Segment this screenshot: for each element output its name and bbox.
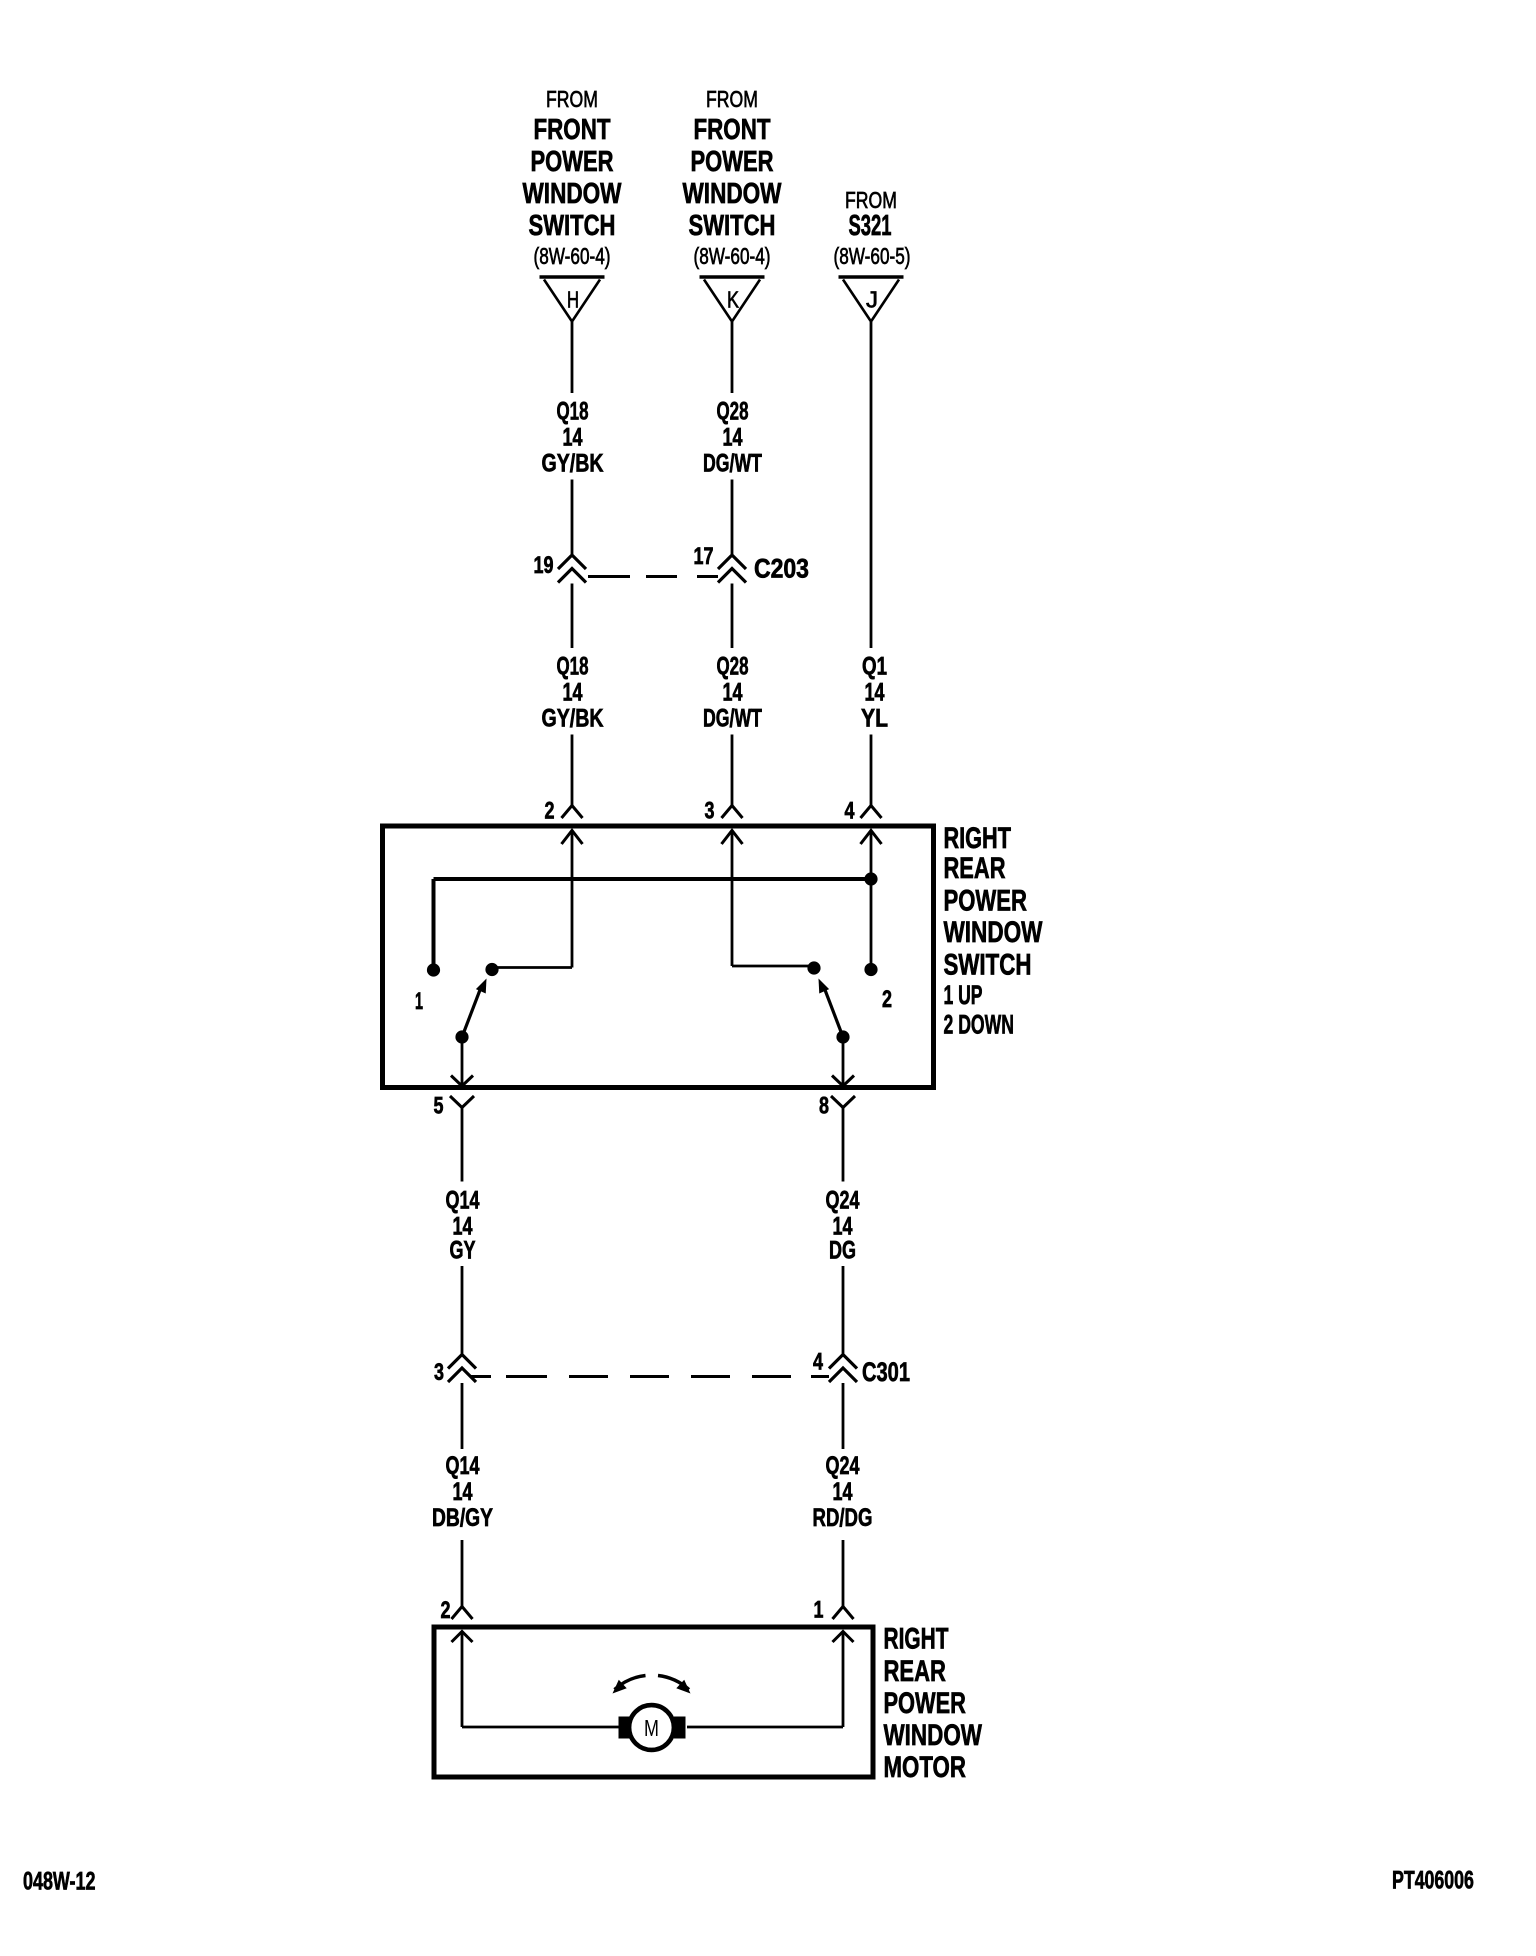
node label col J: FROM S321	[845, 188, 897, 214]
wire H down	[571, 322, 574, 393]
svg-text:K: K	[727, 287, 739, 313]
off-page connector triangle K	[700, 275, 765, 278]
wire arm left to pin 5	[461, 1037, 464, 1086]
wire label Q14 14 DB/GY	[446, 1451, 480, 1480]
svg-text:WINDOW: WINDOW	[683, 179, 783, 210]
svg-text:Q24: Q24	[826, 1451, 860, 1480]
connector C203 pin 17 chevron	[718, 555, 746, 569]
connector name C203	[754, 555, 809, 584]
wire label Q28 14 DG/WT (upper)	[717, 397, 749, 425]
svg-text:8: 8	[819, 1093, 829, 1119]
svg-text:REAR: REAR	[884, 1654, 947, 1688]
wire pin2 inside	[571, 831, 574, 968]
wire Q14 to motor pin 2	[461, 1540, 464, 1607]
motor M1 symbol	[619, 1717, 631, 1739]
right rear power window switch box	[383, 826, 934, 1088]
wire Q18 to switch pin 2	[571, 735, 574, 806]
wire label Q18 14 GY/BK (lower)	[557, 652, 589, 680]
svg-text:17: 17	[694, 544, 714, 570]
svg-text:WINDOW: WINDOW	[944, 915, 1043, 949]
drawing number PT406006	[1392, 1865, 1474, 1894]
connector C301 pin 4 chevron	[829, 1355, 857, 1369]
svg-text:POWER: POWER	[944, 883, 1028, 917]
wire label Q24 14 RD/DG	[826, 1451, 860, 1480]
wire Q18 to C203	[571, 480, 574, 555]
wire Q24 to C301	[842, 1266, 845, 1354]
switch name text	[944, 823, 1012, 855]
svg-text:14: 14	[563, 423, 583, 452]
wire pin8 down	[842, 1108, 845, 1182]
switch arm left (pin5 wiper)	[462, 986, 482, 1037]
svg-text:4: 4	[845, 798, 855, 824]
svg-text:1 UP: 1 UP	[944, 979, 983, 1010]
contact dot upper-right	[807, 961, 820, 974]
svg-text:14: 14	[453, 1477, 473, 1506]
svg-text:REAR: REAR	[944, 851, 1006, 885]
contact dot 2 (down)	[864, 963, 877, 976]
wire label Q18 14 GY/BK (upper)	[557, 397, 589, 425]
wire label Q1 14 YL	[862, 652, 887, 680]
node label col K: FROM FRONT POWER WINDOW SWITCH	[706, 87, 758, 113]
wire label Q28 14 DG/WT (lower)	[717, 652, 749, 680]
contact label 1	[415, 988, 423, 1015]
svg-text:FROM: FROM	[706, 87, 758, 113]
svg-text:1: 1	[415, 988, 423, 1015]
switch pin 2	[562, 806, 583, 819]
wire label Q14 14 GY	[446, 1186, 480, 1215]
svg-text:14: 14	[833, 1477, 853, 1506]
svg-text:POWER: POWER	[531, 146, 614, 177]
pin number 3	[434, 1360, 444, 1386]
svg-text:Q18: Q18	[557, 397, 589, 425]
switch position legend	[944, 979, 983, 1010]
svg-text:YL: YL	[861, 704, 888, 732]
svg-text:Q18: Q18	[557, 652, 589, 680]
svg-text:14: 14	[723, 678, 743, 707]
wire pin4 inside	[870, 831, 873, 970]
svg-text:048W-12: 048W-12	[23, 1867, 95, 1896]
svg-text:2: 2	[882, 987, 892, 1013]
switch pin 8	[832, 1076, 854, 1087]
wire K down	[731, 322, 734, 393]
svg-text:4: 4	[813, 1349, 823, 1375]
wire below C301 left	[461, 1383, 464, 1449]
switch pin 3	[722, 806, 743, 819]
svg-text:J: J	[866, 287, 878, 314]
wire arm right to pin 8	[842, 1037, 845, 1086]
svg-text:Q28: Q28	[717, 397, 749, 425]
switch pin 5	[451, 1076, 473, 1087]
svg-text:3: 3	[434, 1360, 444, 1386]
arm pivot dot right	[836, 1030, 849, 1043]
off-page connector triangle H	[540, 275, 605, 278]
wire pin5 down	[461, 1108, 464, 1182]
svg-text:WINDOW: WINDOW	[884, 1718, 983, 1752]
svg-text:C301: C301	[862, 1357, 910, 1386]
right rear power window motor box	[434, 1627, 873, 1777]
svg-text:Q14: Q14	[446, 1186, 480, 1215]
wire below C301 right	[842, 1383, 845, 1449]
arm pivot dot left	[455, 1030, 468, 1043]
svg-text:14: 14	[723, 423, 743, 452]
motor pin 2	[452, 1607, 473, 1620]
wire Q1 to switch pin 4	[870, 735, 873, 806]
svg-text:2: 2	[441, 1598, 451, 1624]
svg-text:FRONT: FRONT	[694, 115, 771, 146]
wire Q14 to C301	[461, 1266, 464, 1354]
connector name C301	[862, 1357, 910, 1386]
svg-text:GY/BK: GY/BK	[542, 704, 604, 732]
svg-text:FROM: FROM	[546, 87, 598, 113]
svg-text:1: 1	[814, 1597, 824, 1623]
svg-text:2: 2	[545, 798, 555, 824]
svg-text:Q28: Q28	[717, 652, 749, 680]
node label col H: FROM FRONT POWER WINDOW SWITCH	[546, 87, 598, 113]
wire below C203 left	[571, 584, 574, 649]
wire Q28 to switch pin 3	[731, 735, 734, 806]
connector C301 dashed link	[470, 1375, 491, 1378]
wire to contact	[492, 966, 572, 969]
pin number 19	[534, 553, 554, 579]
svg-text:POWER: POWER	[691, 146, 774, 177]
svg-text:(8W-60-4): (8W-60-4)	[534, 243, 611, 269]
svg-text:Q14: Q14	[446, 1451, 480, 1480]
svg-text:DG/WT: DG/WT	[703, 448, 762, 477]
svg-text:SWITCH: SWITCH	[689, 210, 776, 241]
svg-text:DG/WT: DG/WT	[703, 703, 762, 732]
connector C301 pin 3 chevron	[448, 1355, 476, 1369]
svg-text:RIGHT: RIGHT	[884, 1623, 949, 1655]
wire to motor right	[687, 1726, 843, 1729]
svg-text:FRONT: FRONT	[534, 115, 611, 146]
motor name text	[884, 1623, 949, 1655]
crossbar wire	[434, 877, 872, 881]
switch pin 4	[861, 806, 882, 819]
wire pin3 inside	[731, 831, 734, 967]
junction dot pin4/crossbar	[864, 872, 877, 885]
svg-text:19: 19	[534, 553, 554, 579]
svg-text:M: M	[644, 1716, 659, 1742]
svg-text:C203: C203	[754, 555, 809, 584]
connector C203 pin 19 chevron	[558, 555, 586, 569]
wire label Q24 14 DG	[826, 1186, 860, 1215]
svg-text:Q24: Q24	[826, 1186, 860, 1215]
wire below C203 right	[731, 584, 734, 649]
wire Q28 to C203	[731, 480, 734, 555]
svg-text:SWITCH: SWITCH	[944, 948, 1032, 982]
sheet number 048W-12	[23, 1867, 95, 1896]
switch arm right (pin8 wiper)	[824, 986, 844, 1037]
wire J down	[870, 322, 873, 648]
svg-text:RD/DG: RD/DG	[813, 1503, 873, 1531]
svg-text:GY: GY	[450, 1236, 476, 1265]
off-page connector triangle J	[839, 275, 904, 278]
svg-text:MOTOR: MOTOR	[884, 1750, 967, 1784]
wire to motor left	[462, 1726, 619, 1729]
svg-text:H: H	[567, 288, 579, 313]
svg-text:SWITCH: SWITCH	[529, 210, 616, 241]
wire motor pin2 inside	[461, 1632, 464, 1728]
svg-text:(8W-60-4): (8W-60-4)	[694, 243, 771, 269]
contact dot upper-left	[485, 963, 498, 976]
contact dot 1 (up)	[427, 963, 440, 976]
svg-text:DG: DG	[829, 1236, 856, 1265]
wire Q24 to motor pin 1	[842, 1540, 845, 1607]
svg-text:14: 14	[865, 678, 885, 707]
svg-text:GY/BK: GY/BK	[542, 449, 604, 477]
svg-text:POWER: POWER	[884, 1688, 967, 1720]
svg-text:WINDOW: WINDOW	[523, 179, 623, 210]
svg-text:PT406006: PT406006	[1392, 1865, 1474, 1894]
svg-text:2 DOWN: 2 DOWN	[944, 1009, 1014, 1040]
pin number 17	[694, 544, 714, 570]
svg-text:S321: S321	[849, 210, 892, 242]
wire motor pin1 inside	[842, 1632, 845, 1728]
left drop wire	[432, 879, 436, 964]
svg-text:3: 3	[705, 798, 715, 824]
svg-text:14: 14	[563, 678, 583, 707]
pin number 4	[813, 1349, 823, 1375]
wire to contact	[732, 965, 814, 968]
motor pin 1	[833, 1607, 854, 1620]
svg-text:Q1: Q1	[862, 652, 887, 680]
connector C203 dashed link	[588, 575, 630, 578]
svg-text:(8W-60-5): (8W-60-5)	[834, 243, 911, 269]
contact label 2	[882, 987, 892, 1013]
rotation arrows	[615, 1676, 646, 1690]
svg-text:DB/GY: DB/GY	[432, 1504, 493, 1532]
svg-text:5: 5	[434, 1093, 444, 1119]
